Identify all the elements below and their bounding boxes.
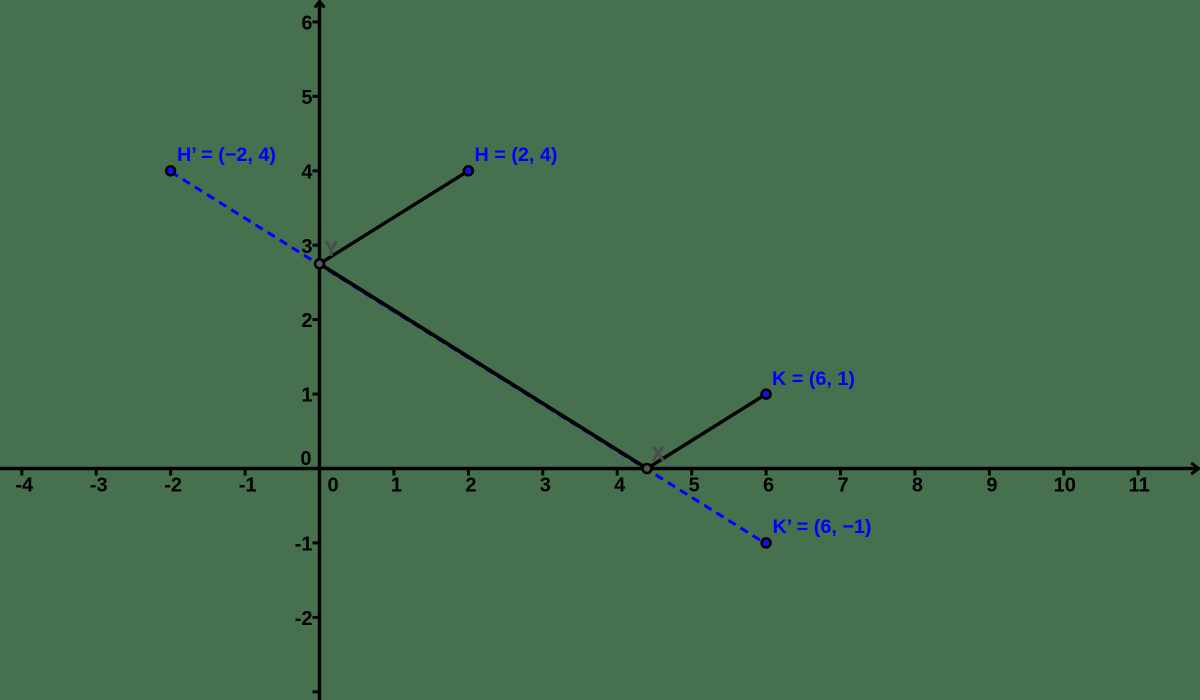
y tick 3 (301, 236, 318, 258)
svg-text:-1: -1 (295, 534, 313, 556)
svg-text:-1: -1 (239, 474, 257, 496)
point K' (762, 538, 771, 547)
y tick 4 (301, 161, 318, 183)
svg-text:-2: -2 (164, 474, 182, 496)
x tick 10 (1054, 470, 1076, 496)
x tick 6 (763, 470, 774, 496)
svg-text:5: 5 (301, 87, 312, 109)
x tick 11 (1129, 470, 1150, 496)
svg-text:K = (6, 1): K = (6, 1) (772, 368, 855, 390)
point H (464, 166, 473, 175)
svg-text:11: 11 (1129, 474, 1150, 496)
x tick 7 (837, 470, 848, 496)
x tick 2 (465, 470, 476, 496)
segment Y-X (320, 264, 648, 469)
x tick -4 (15, 470, 34, 496)
y tick 2 (301, 310, 318, 332)
svg-text:5: 5 (689, 474, 700, 496)
svg-text:9: 9 (986, 474, 997, 496)
x tick 3 (540, 470, 551, 496)
point K (762, 390, 771, 399)
x tick 9 (986, 470, 997, 496)
svg-text:X: X (652, 444, 666, 466)
svg-text:1: 1 (391, 474, 402, 496)
svg-text:7: 7 (837, 474, 848, 496)
svg-text:2: 2 (301, 310, 312, 332)
svg-text:4: 4 (301, 161, 313, 183)
svg-text:3: 3 (540, 474, 551, 496)
y tick 6 (301, 13, 318, 35)
svg-text:-3: -3 (90, 474, 108, 496)
y tick -1 (295, 534, 318, 556)
y tick -2 (295, 608, 318, 630)
x tick 8 (912, 470, 923, 496)
y tick 1 (301, 385, 318, 407)
svg-text:0: 0 (300, 448, 311, 470)
svg-text:0: 0 (327, 474, 338, 496)
x tick 5 (689, 470, 700, 496)
segment X-K (647, 394, 766, 468)
x tick 1 (391, 470, 402, 496)
svg-text:H’ = (−2, 4): H’ = (−2, 4) (177, 144, 276, 166)
svg-text:-4: -4 (15, 474, 34, 496)
point Y (315, 259, 324, 268)
svg-text:-2: -2 (295, 608, 313, 630)
dashed line H'K' (171, 172, 767, 544)
svg-text:Y: Y (325, 239, 339, 261)
svg-text:2: 2 (465, 474, 476, 496)
x tick -2 (164, 470, 182, 496)
svg-text:4: 4 (614, 474, 626, 496)
svg-text:8: 8 (912, 474, 923, 496)
svg-text:3: 3 (301, 236, 312, 258)
svg-text:10: 10 (1054, 474, 1076, 496)
svg-text:6: 6 (301, 13, 312, 35)
x tick -3 (90, 470, 108, 496)
segment H-Y (320, 171, 469, 264)
x-axis (0, 463, 1199, 474)
y-axis (315, 1, 325, 700)
y tick 5 (301, 87, 318, 109)
x tick -1 (239, 470, 257, 496)
svg-text:6: 6 (763, 474, 774, 496)
x tick 4 (614, 470, 626, 496)
point H' (166, 166, 175, 175)
svg-text:H = (2, 4): H = (2, 4) (475, 144, 558, 166)
y tick -3 (313, 690, 319, 693)
svg-text:K’ = (6, −1): K’ = (6, −1) (773, 516, 872, 538)
point X (643, 464, 652, 473)
svg-text:1: 1 (301, 385, 312, 407)
